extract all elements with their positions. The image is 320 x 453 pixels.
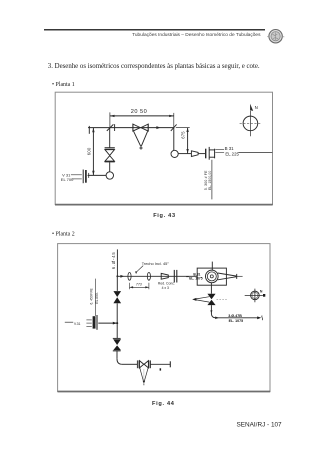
dimension 600: dimension line <box>92 128 94 176</box>
svg-text:Fig. 44: Fig. 44 <box>152 401 175 407</box>
svg-text:• Planta 2: • Planta 2 <box>52 231 75 237</box>
globe valve V-D (filled with end bars) <box>113 338 121 351</box>
wire: riser down at right corner <box>173 128 175 151</box>
concentric reducer R1 <box>191 151 198 157</box>
tick at left stub end <box>88 126 90 134</box>
flow arrow into riser <box>113 322 117 325</box>
wire: pipe east of V-F <box>150 363 170 365</box>
dimension 2050: left arrowhead <box>110 115 115 117</box>
svg-text:773: 773 <box>136 283 142 287</box>
svg-text:675: 675 <box>181 131 186 139</box>
svg-text:N: N <box>260 290 263 294</box>
flange pair F3 <box>173 270 175 283</box>
flow arrow after elbow <box>215 317 219 320</box>
flow arrow on top pipe <box>156 126 160 129</box>
flow arrow down before elbow <box>210 310 212 313</box>
leader dashes to V.31 label <box>86 319 91 321</box>
node: branch junction dot <box>116 322 118 324</box>
leader lines to B 31 label <box>215 149 224 151</box>
svg-text:4 x 3: 4 x 3 <box>162 286 169 290</box>
pump B-31 casing rectangle <box>197 268 226 285</box>
dimension 675: top extension line <box>176 127 190 129</box>
pump B-31 circles <box>206 270 219 283</box>
svg-text:EL. 1500,00: EL. 1500,00 <box>208 171 212 190</box>
concentric reducer R2 <box>161 273 168 279</box>
dimension 675: top arrowhead <box>186 128 188 132</box>
svg-text:EL 700: EL 700 <box>61 177 74 182</box>
dimension 2050: dimension line <box>110 115 174 117</box>
weld ellipse E2 <box>147 272 150 280</box>
wire: pipe from C2 to reducer <box>178 153 191 155</box>
line break squiggle <box>261 316 264 321</box>
elbow arc to east at bottom <box>117 359 122 364</box>
svg-text:N: N <box>255 105 258 110</box>
wire: riser below V-D <box>116 351 118 359</box>
node: right corner diagonal tick <box>171 124 177 130</box>
wire: riser segment below gate valve <box>109 162 111 172</box>
flange F2 with blind box <box>206 147 215 160</box>
wire: pipe east to edge arrow <box>216 317 259 319</box>
flange F4 (thick bar + thin bar) <box>93 316 96 328</box>
frame Planta 1 bottom edge (darker) <box>55 204 273 206</box>
svg-text:20 50: 20 50 <box>131 109 148 115</box>
frame Planta 1 <box>55 92 272 204</box>
wire: riser below valve V-C <box>210 305 212 313</box>
dimension 2050: left extension line <box>109 112 111 127</box>
svg-text:EL 800.: EL 800. <box>95 292 99 303</box>
weld ellipse E1 <box>128 272 131 280</box>
wire: long line to frame edge <box>238 152 272 154</box>
wire: west branch <box>98 322 117 324</box>
dimension 773: extension lines <box>129 283 131 289</box>
flange F1 at nozzle V-31 <box>83 170 89 184</box>
svg-text:EL 225: EL 225 <box>225 151 239 156</box>
dimension 773: dimension line <box>130 286 149 288</box>
svg-text:V.31: V.31 <box>74 322 81 326</box>
end cap bar <box>169 361 171 367</box>
svg-text:3.Ø-47B: 3.Ø-47B <box>228 314 242 318</box>
wire: top pipe run (east-west) <box>88 127 174 129</box>
svg-text:6. 450# FE: 6. 450# FE <box>89 288 93 305</box>
gate valve V-A (flanged, outline) <box>105 148 115 162</box>
header rule <box>44 29 265 31</box>
globe valve V-C (filled, stem west) <box>192 294 227 305</box>
tiny mark below pipe <box>160 368 162 370</box>
dimension 2050: right arrowhead <box>169 115 174 117</box>
header logo <box>267 30 284 43</box>
frame Planta 2 <box>58 244 270 392</box>
node: left corner diagonal tick <box>107 124 114 130</box>
elbow circle C2 <box>171 150 178 157</box>
node: tee junction <box>116 275 118 277</box>
svg-text:6.Ø-45: 6.Ø-45 <box>111 251 116 269</box>
north symbol Planta 2 <box>245 289 266 303</box>
wire: riser to west branch <box>116 303 118 338</box>
svg-text:Trecho Incl. 45°: Trecho Incl. 45° <box>142 261 170 266</box>
dimension 675: bottom arrowhead <box>186 149 188 153</box>
dimension 675: dimension line <box>187 128 189 154</box>
wire: riser segment above gate valve <box>109 128 111 148</box>
label dash and V.31 <box>65 321 73 323</box>
wire: pump discharge down <box>210 283 212 294</box>
svg-text:EL. 1075: EL. 1075 <box>189 276 203 280</box>
frame Planta 2 bottom edge (darker) <box>58 391 271 393</box>
svg-text:EL. 1075: EL. 1075 <box>229 319 244 323</box>
wire: line down from flange F2 <box>211 160 213 200</box>
svg-text:• Planta 1: • Planta 1 <box>52 82 75 88</box>
leader line up from flange <box>94 279 96 316</box>
elbow arc to east <box>211 313 215 317</box>
flow arrow on east run <box>120 275 124 278</box>
svg-text:Fig. 43: Fig. 43 <box>153 213 176 219</box>
pump discharge nozzle east <box>218 273 243 280</box>
wire: bottom pipe to valve V-F <box>122 363 137 365</box>
leader to inclined section <box>137 266 144 272</box>
wire: east run to pump <box>117 275 197 277</box>
elbow circle C1 (pipe turning up) <box>106 172 113 179</box>
north symbol Planta 1 <box>240 104 262 137</box>
leader dash to pump label <box>186 276 189 278</box>
globe valve V-E (filled) <box>113 291 121 303</box>
dimension 773: arrowheads <box>130 286 134 288</box>
end arrowhead <box>257 316 261 319</box>
wire: bottom pipe to flange <box>88 174 107 176</box>
wire: north stub pipe at top <box>116 249 118 276</box>
dimension 2050: right extension line <box>173 113 175 128</box>
gate valve V-F (flanged, stem south funnel) <box>137 360 150 385</box>
svg-text:Red. Conc.: Red. Conc. <box>158 282 175 286</box>
svg-text:600: 600 <box>86 147 91 155</box>
valve V-B stem triangle pointing down <box>134 131 141 146</box>
label V 31 / EL 700 <box>61 172 82 182</box>
svg-text:3. Desenhe os isométricos corr: 3. Desenhe os isométricos correspondente… <box>48 63 260 70</box>
pump suction stub <box>211 262 213 271</box>
wire: pipe reducer to flange <box>198 153 205 155</box>
svg-text:Tubulações Industriais – Desen: Tubulações Industriais – Desenho Isométr… <box>132 32 261 38</box>
dimension 600: bottom arrowhead <box>92 171 94 176</box>
valve V-F stem funnel pointing down <box>140 368 144 381</box>
dimension 600: top arrowhead <box>92 128 94 133</box>
svg-text:SENAI/RJ - 107: SENAI/RJ - 107 <box>237 422 283 429</box>
tick on top pipe before valve <box>114 124 116 131</box>
globe valve V-B on top pipe (bowtie with stem down) <box>133 124 148 150</box>
wire: riser V-E segment (tee to valve) <box>116 276 118 291</box>
